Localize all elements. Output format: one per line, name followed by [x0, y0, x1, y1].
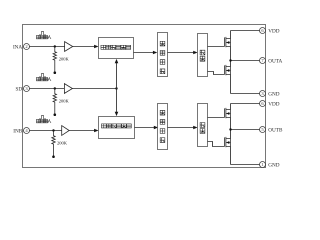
svg-text:INA: INA [13, 44, 22, 50]
svg-text:GND: GND [268, 162, 279, 168]
svg-text:200K: 200K [59, 99, 70, 104]
svg-text:VDD: VDD [268, 101, 279, 107]
svg-text:200K: 200K [59, 57, 70, 62]
svg-text:200K: 200K [57, 141, 68, 146]
svg-text:OUTA: OUTA [268, 58, 282, 64]
svg-text:VDD: VDD [268, 28, 279, 34]
svg-text:SD: SD [16, 86, 23, 92]
svg-text:OUTB: OUTB [268, 127, 283, 133]
svg-text:INB: INB [13, 128, 22, 134]
svg-text:GND: GND [268, 91, 279, 97]
